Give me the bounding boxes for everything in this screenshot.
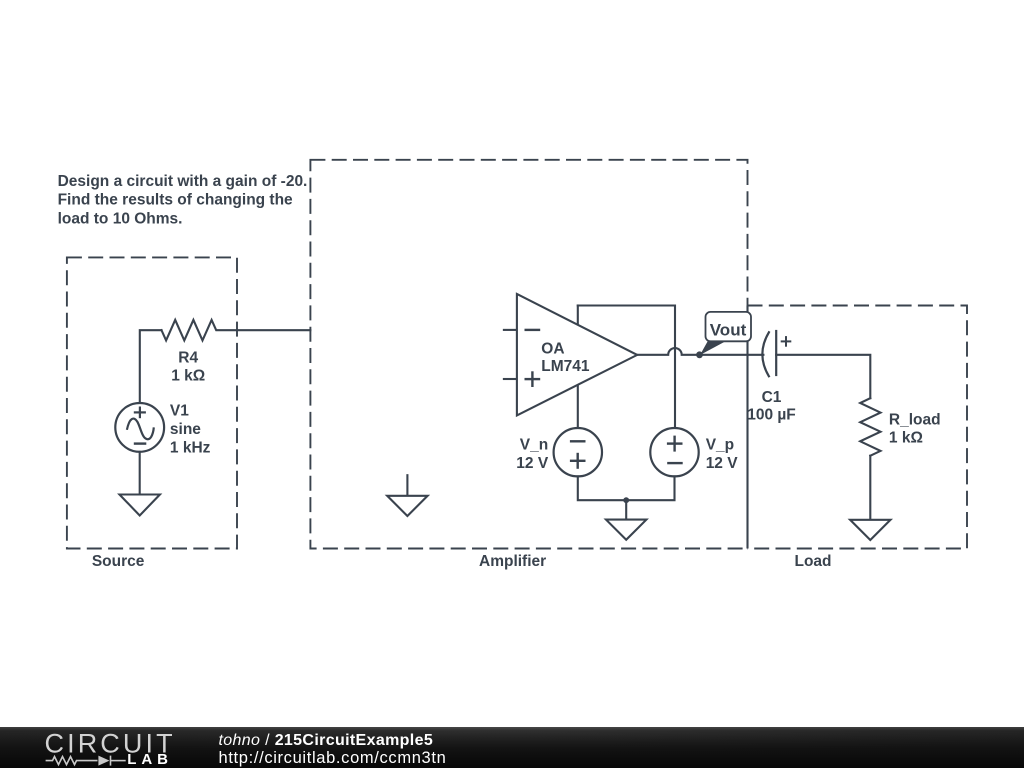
svg-text:Design a circuit with a gain o: Design a circuit with a gain of -20. xyxy=(58,173,308,190)
svg-text:R_load: R_load xyxy=(889,412,941,429)
svg-text:LM741: LM741 xyxy=(541,358,590,375)
svg-text:V_n: V_n xyxy=(520,437,548,454)
svg-text:12 V: 12 V xyxy=(706,455,739,472)
svg-text:R4: R4 xyxy=(178,350,198,367)
svg-text:1 kΩ: 1 kΩ xyxy=(171,368,205,385)
svg-text:12 V: 12 V xyxy=(516,455,549,472)
svg-text:Vout: Vout xyxy=(710,320,747,339)
svg-text:tohno / 215CircuitExample5: tohno / 215CircuitExample5 xyxy=(219,732,434,749)
svg-text:1 kHz: 1 kHz xyxy=(170,440,211,457)
svg-text:V1: V1 xyxy=(170,402,189,419)
svg-text:Find the results of changing t: Find the results of changing the xyxy=(58,192,293,209)
svg-text:Load: Load xyxy=(794,553,831,570)
svg-text:http://circuitlab.com/ccmn3tn: http://circuitlab.com/ccmn3tn xyxy=(219,749,447,767)
svg-text:C1: C1 xyxy=(762,389,782,406)
svg-text:Source: Source xyxy=(92,553,145,570)
svg-text:OA: OA xyxy=(541,340,564,357)
svg-text:load to 10 Ohms.: load to 10 Ohms. xyxy=(58,211,183,228)
svg-text:LAB: LAB xyxy=(127,751,173,768)
svg-text:100 µF: 100 µF xyxy=(747,407,796,424)
svg-text:1 kΩ: 1 kΩ xyxy=(889,429,923,446)
svg-text:sine: sine xyxy=(170,421,201,438)
svg-text:V_p: V_p xyxy=(706,437,734,454)
svg-text:Amplifier: Amplifier xyxy=(479,553,546,570)
